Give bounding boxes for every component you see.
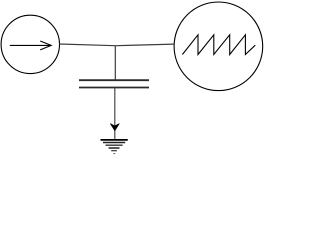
sawtooth source V1 [174, 2, 263, 91]
sawtooth waveform [182, 35, 255, 55]
ground line 4 [109, 147, 120, 149]
current source arrow shaft [10, 44, 51, 46]
current source arrowhead [40, 41, 51, 50]
ground line 5 [111, 150, 117, 152]
ground line 3 [106, 144, 123, 146]
wire left segment [59, 44, 115, 46]
wire arrowhead [110, 124, 119, 131]
ground line 2 [103, 142, 125, 144]
capacitor C1 bottom plate [79, 87, 149, 89]
current source I1 [1, 15, 59, 73]
capacitor C1 top plate [79, 79, 149, 81]
ground line 6 [113, 153, 115, 155]
wire right segment [115, 44, 174, 46]
node junction wire down [114, 46, 116, 80]
ground line 1 [101, 139, 128, 141]
wire to ground [114, 88, 116, 140]
